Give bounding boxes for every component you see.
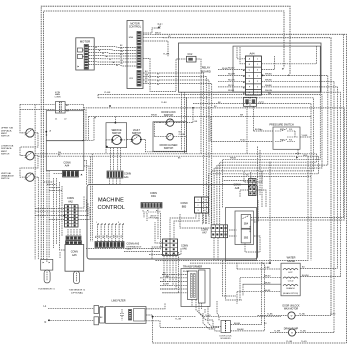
wire labels motor	[120, 45, 124, 65]
relay board	[179, 43, 322, 92]
svg-text:YL-BK: YL-BK	[267, 314, 273, 316]
connector CONN AA1	[107, 171, 131, 185]
svg-text:COLD: COLD	[288, 280, 294, 282]
wires bb3 drop	[170, 186, 209, 239]
svg-text:RD-WH: RD-WH	[228, 73, 235, 75]
svg-text:AA7: AA7	[202, 232, 207, 235]
tub sensor 1	[38, 259, 55, 290]
connector CC2	[187, 53, 197, 62]
wires aa5 drop	[60, 229, 81, 250]
drain pump	[270, 327, 334, 336]
svg-text:RD-YL: RD-YL	[228, 85, 235, 87]
wires AA4 left	[218, 68, 264, 94]
svg-text:BU-WH: BU-WH	[302, 275, 309, 277]
svg-text:SWITCH: SWITCH	[1, 136, 10, 138]
svg-text:DOOR UNLOCK: DOOR UNLOCK	[282, 305, 300, 307]
svg-text:VT-BU: VT-BU	[240, 140, 246, 142]
svg-text:W: W	[291, 316, 293, 318]
svg-text:YL-BK: YL-BK	[302, 135, 308, 137]
svg-text:MACHINE: MACHINE	[98, 198, 124, 204]
svg-text:YL-GN: YL-GN	[301, 341, 307, 343]
door closed switch	[160, 132, 186, 150]
wires aa7 down	[214, 238, 218, 261]
svg-text:BLEACH: BLEACH	[286, 287, 295, 290]
vertical unbalance switch	[1, 172, 38, 181]
svg-text:6: 6	[257, 86, 258, 88]
svg-text:CONN: CONN	[124, 172, 131, 175]
lower tub displacement switch	[1, 146, 38, 160]
wax motor	[258, 305, 332, 319]
svg-text:BOARD: BOARD	[201, 69, 211, 73]
wires center drop	[204, 108, 212, 224]
wires door switches	[154, 98, 311, 154]
connector CONN BB3	[180, 197, 208, 213]
svg-text:YL: YL	[120, 57, 122, 59]
service switch	[106, 130, 127, 148]
svg-text:WH-BU: WH-BU	[264, 276, 271, 278]
svg-text:MOTOR: MOTOR	[80, 40, 90, 44]
svg-text:WH-BK: WH-BK	[265, 85, 272, 87]
connector CONN AA8	[233, 147, 260, 198]
svg-text:YL-BU: YL-BU	[161, 102, 167, 104]
svg-text:1: 1	[257, 59, 258, 61]
wire relay edge	[261, 46, 316, 64]
wires service vault	[106, 140, 187, 172]
svg-text:SWITCH: SWITCH	[164, 147, 174, 150]
svg-text:MS4: MS4	[129, 37, 134, 39]
svg-text:3: 3	[197, 210, 198, 212]
ground pressure	[296, 154, 308, 159]
svg-text:YL-GN: YL-GN	[175, 318, 182, 320]
wires plug	[20, 104, 344, 220]
wire N perimeter inner	[44, 11, 284, 259]
svg-text:RD-GN: RD-GN	[228, 79, 235, 81]
svg-text:1: 1	[96, 222, 97, 224]
svg-text:BU-WH: BU-WH	[163, 283, 169, 285]
relay board inner box	[233, 46, 320, 92]
door lock solenoid	[219, 321, 232, 341]
svg-text:VERTICAL: VERTICAL	[1, 172, 12, 175]
svg-text:YL: YL	[110, 236, 112, 238]
wires dd1 to aa6	[144, 208, 161, 250]
wires AA8 region	[220, 171, 266, 207]
motor wires	[88, 47, 137, 67]
svg-text:AA8: AA8	[235, 187, 240, 190]
svg-text:YL-BK: YL-BK	[163, 54, 170, 56]
line filter	[94, 299, 146, 325]
wires AA6 region	[152, 222, 179, 293]
wire horizontal bus A	[35, 104, 318, 264]
svg-text:OPTIONAL): OPTIONAL)	[148, 217, 159, 220]
svg-text:5: 5	[204, 205, 205, 207]
svg-text:WH-BU: WH-BU	[265, 73, 272, 75]
svg-text:RD-BK: RD-BK	[228, 90, 235, 92]
svg-text:AA4: AA4	[249, 52, 255, 56]
svg-text:CONTROL: CONTROL	[129, 26, 142, 29]
relay 3B4	[241, 215, 251, 229]
connector AA4	[237, 46, 261, 95]
svg-text:AA5: AA5	[72, 254, 77, 257]
svg-text:TUB SENSOR #1: TUB SENSOR #1	[38, 288, 55, 290]
svg-text:SOLENOID: SOLENOID	[220, 338, 231, 340]
connector CONN AA7	[201, 225, 228, 238]
svg-text:5: 5	[257, 81, 258, 83]
svg-text:YL-GN: YL-GN	[286, 341, 293, 343]
svg-text:YL-BK: YL-BK	[104, 92, 111, 94]
svg-text:YL-WH: YL-WH	[274, 331, 281, 333]
svg-text:WAX MOTOR: WAX MOTOR	[284, 307, 299, 310]
pressure switch	[269, 124, 300, 150]
svg-text:CC2: CC2	[188, 53, 193, 56]
svg-text:AA4: AA4	[65, 165, 70, 168]
connector CONN DD1	[141, 192, 162, 220]
svg-text:TRANSFORMER: TRANSFORMER	[183, 266, 203, 269]
svg-text:7: 7	[257, 92, 258, 94]
wire labels jp4	[145, 71, 167, 104]
svg-text:VAULT: VAULT	[133, 129, 141, 132]
door switches box	[153, 122, 187, 152]
svg-text:GG2: GG2	[259, 102, 265, 105]
connector CONN AA6	[163, 239, 189, 256]
wires water valve	[237, 262, 341, 304]
svg-text:YL-BK: YL-BK	[264, 267, 270, 269]
svg-text:WH-BK: WH-BK	[230, 157, 237, 159]
svg-text:AA2: AA2	[68, 200, 73, 203]
wire labels bus	[58, 33, 336, 344]
svg-text:(BLEACH OPTION): (BLEACH OPTION)	[283, 292, 298, 295]
svg-text:AA1: AA1	[124, 176, 129, 179]
svg-text:YL-GN: YL-GN	[205, 315, 211, 317]
water valve	[281, 257, 300, 296]
svg-text:FUL: FUL	[289, 129, 292, 131]
wires right mid extra	[223, 171, 263, 300]
wire MS4 out	[143, 34, 168, 56]
svg-text:PRESSURE SWITCH: PRESSURE SWITCH	[269, 124, 294, 127]
connector CONN AA3 comb	[95, 223, 142, 250]
svg-text:SWITCH: SWITCH	[1, 178, 10, 180]
connector CONN AA2	[65, 197, 79, 227]
svg-text:DD1: DD1	[151, 195, 156, 198]
motor control	[127, 21, 143, 89]
wire L1 perimeter outer	[41, 6, 290, 259]
svg-text:4: 4	[257, 75, 258, 77]
svg-text:AA6: AA6	[182, 248, 187, 251]
svg-text:3B4: 3B4	[244, 223, 249, 226]
svg-text:BU-BK: BU-BK	[234, 323, 241, 325]
transformer T1	[181, 266, 210, 307]
machine control board	[87, 185, 258, 259]
wires left bus	[35, 104, 62, 262]
vault switch	[127, 129, 145, 144]
junction dots extra	[109, 103, 271, 318]
wires mid verticals	[182, 92, 202, 154]
plug J1 J2	[55, 92, 68, 121]
svg-text:2: 2	[257, 64, 258, 66]
svg-text:SERVICE: SERVICE	[111, 130, 122, 132]
wires solenoid	[213, 262, 265, 331]
wires GG2 down	[247, 106, 254, 154]
svg-text:1: 1	[197, 199, 198, 201]
wires AA4 right	[261, 56, 340, 333]
box 3B enclosure	[235, 211, 254, 245]
wires line filter	[44, 303, 347, 343]
svg-text:4: 4	[204, 199, 205, 201]
wire CC2 out	[196, 59, 201, 97]
service switch box	[106, 122, 127, 148]
svg-text:2: 2	[197, 205, 198, 207]
svg-text:LINE FILTER: LINE FILTER	[111, 299, 125, 302]
svg-text:(OPTIONAL): (OPTIONAL)	[71, 291, 83, 294]
wire top to right border	[155, 34, 346, 343]
box 3B outer	[226, 208, 257, 261]
svg-text:WH-BK: WH-BK	[151, 115, 158, 117]
wires mid bus corners	[209, 92, 328, 225]
svg-text:WH-BK: WH-BK	[237, 329, 244, 331]
svg-text:N: N	[45, 321, 47, 324]
svg-text:CONN: CONN	[55, 97, 61, 99]
svg-text:TUB SENSOR #2: TUB SENSOR #2	[69, 289, 86, 291]
svg-text:SWITCH: SWITCH	[1, 153, 10, 155]
wires comb verticals	[91, 154, 93, 242]
relay 3B5	[241, 229, 251, 243]
wires bottom nest	[153, 300, 282, 332]
wire top inner right	[163, 38, 331, 316]
svg-text:RD-BU: RD-BU	[228, 68, 235, 70]
wires AA7 region	[180, 200, 260, 252]
svg-text:CONN AA3: CONN AA3	[127, 243, 140, 246]
svg-text:DISPLACE-: DISPLACE-	[1, 147, 12, 150]
wires right bus descend	[343, 34, 345, 217]
box left upper	[45, 111, 83, 141]
svg-text:WH-RD: WH-RD	[264, 282, 271, 284]
door lock switch	[160, 111, 185, 126]
svg-text:RD-WH: RD-WH	[183, 271, 190, 273]
svg-text:FUL: FUL	[289, 140, 292, 142]
svg-text:WH-BK: WH-BK	[264, 290, 271, 292]
svg-text:BK-WH: BK-WH	[255, 129, 262, 131]
svg-text:WH-VT: WH-VT	[155, 33, 162, 35]
connector GG2	[244, 97, 265, 106]
wires mc bottom lines	[60, 248, 181, 258]
svg-text:RELAY: RELAY	[202, 66, 211, 70]
svg-text:RD-WH: RD-WH	[163, 276, 170, 278]
wires pressure switch	[211, 129, 311, 153]
connector CONN AA5	[65, 236, 86, 294]
svg-text:YL-RD: YL-RD	[330, 314, 336, 316]
wires 3B4 right	[251, 217, 344, 219]
wires transformer	[160, 275, 202, 310]
svg-text:BB3: BB3	[182, 205, 187, 208]
svg-text:CONTROL: CONTROL	[98, 205, 125, 211]
upper tub displacement switch	[1, 128, 38, 138]
svg-text:3B5: 3B5	[244, 237, 249, 240]
motor M1	[76, 38, 94, 70]
wire YL-BK to CC2	[98, 54, 322, 161]
connector CONN AA4	[63, 161, 83, 177]
wires AA2 sides	[35, 196, 90, 220]
svg-text:3: 3	[257, 70, 258, 72]
svg-text:DISPLACE-: DISPLACE-	[1, 129, 12, 132]
wires left switches	[20, 104, 38, 177]
svg-text:RD-BU: RD-BU	[222, 68, 228, 70]
svg-text:YL-BU: YL-BU	[300, 331, 306, 333]
wire YL-GN bottom	[175, 318, 293, 343]
wires JP4 bus	[143, 73, 212, 189]
svg-text:8: 8	[118, 222, 119, 224]
svg-text:CONN: CONN	[71, 251, 78, 254]
svg-text:WH-RD: WH-RD	[265, 79, 272, 81]
ground	[143, 24, 163, 33]
svg-text:6: 6	[204, 210, 205, 212]
wires CONN AA4	[44, 161, 89, 191]
svg-text:SWITCH: SWITCH	[112, 133, 121, 135]
svg-text:YL-RD: YL-RD	[299, 314, 306, 316]
box left lower	[46, 141, 84, 171]
svg-text:UNBALANCE: UNBALANCE	[1, 175, 14, 178]
svg-text:CARD: CARD	[127, 248, 133, 251]
